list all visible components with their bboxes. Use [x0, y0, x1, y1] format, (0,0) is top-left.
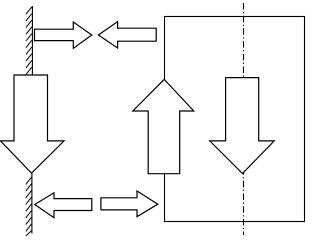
big down arrow right (on centerline): [210, 78, 274, 174]
centerline (dash-dot axis): [243, 3, 245, 235]
wall upper hatching: [26, 7, 32, 75]
top left-pointing arrow: [98, 22, 156, 48]
wall upper line: [31, 6, 33, 75]
system boundary rectangle: [165, 17, 305, 222]
top right-pointing arrow: [35, 22, 92, 48]
bottom right-pointing arrow: [101, 191, 158, 217]
wall lower hatching: [26, 177, 32, 236]
bottom left-pointing arrow: [35, 193, 92, 218]
wall lower line: [31, 173, 33, 233]
big up arrow (on rectangle left edge): [133, 79, 194, 173]
big down arrow left (along wall): [1, 75, 65, 173]
